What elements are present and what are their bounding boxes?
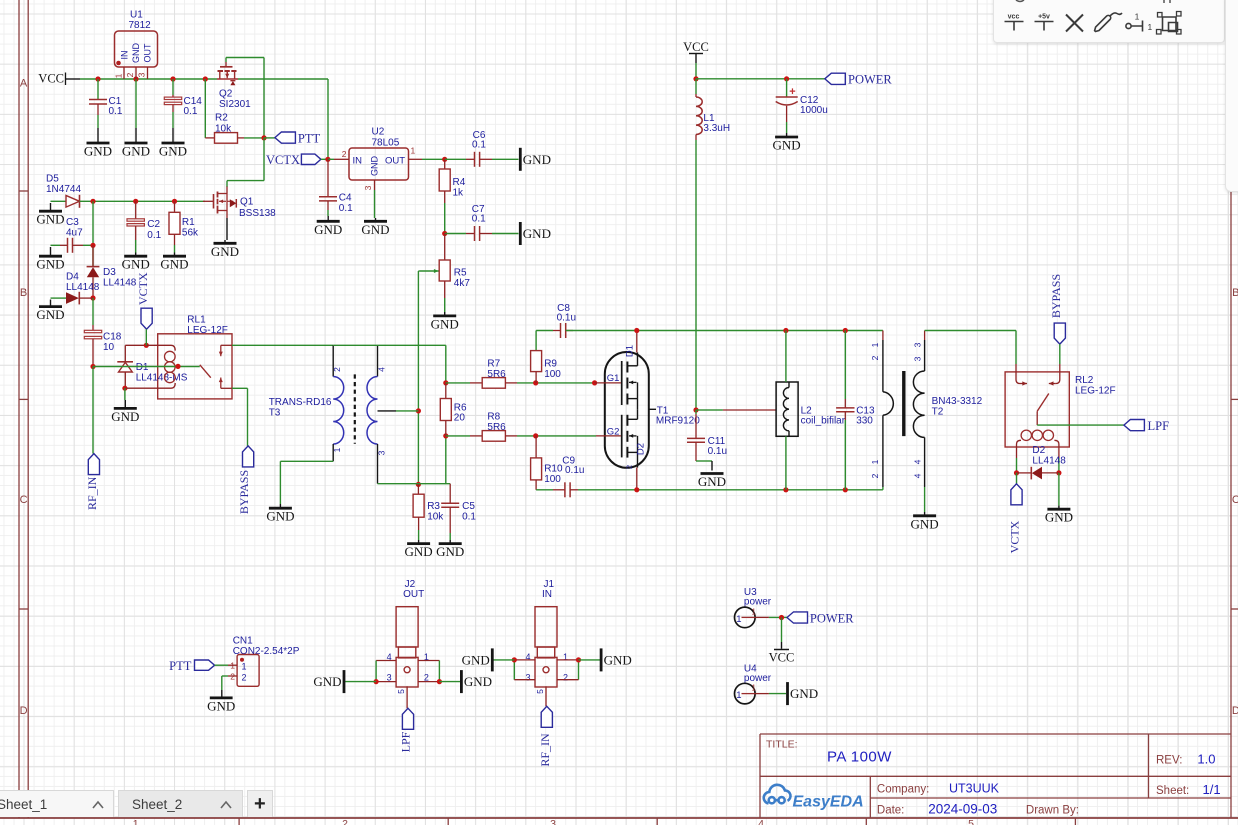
svg-text:VCTX: VCTX	[1008, 520, 1022, 553]
ground under T2 pin4	[924, 512, 926, 516]
svg-text:1N4744: 1N4744	[46, 184, 81, 195]
dual mosfet T1 MRF9120	[637, 452, 639, 467]
junction	[133, 76, 138, 81]
ground left of D4	[50, 300, 52, 307]
svg-text:T3: T3	[269, 408, 281, 419]
capacitor C7	[445, 233, 466, 235]
capacitor C7	[492, 233, 519, 235]
junction	[592, 380, 597, 385]
diode D2 LL4148	[1030, 467, 1032, 480]
capacitor C11	[696, 409, 712, 411]
PTT flag shape	[195, 660, 215, 670]
CN1 pin2 to ground	[221, 690, 223, 698]
capacitor C6	[479, 152, 481, 167]
ground under D2	[1058, 473, 1060, 506]
svg-text:C: C	[20, 494, 28, 506]
capacitor C2	[135, 240, 137, 253]
transistor Q1 BSS138	[218, 210, 228, 212]
wire VCC rail	[80, 78, 217, 80]
wire U1 pin2 to ground	[135, 79, 137, 128]
svg-text:2: 2	[870, 473, 880, 478]
net port VCC (U3)	[781, 618, 783, 643]
T2 right winding	[913, 371, 924, 437]
ground left of C3	[39, 255, 62, 258]
RL2 coil pins down	[1016, 458, 1018, 473]
resistor R9 100	[535, 372, 537, 383]
svg-text:R2: R2	[215, 113, 228, 124]
capacitor C9	[569, 482, 571, 497]
title block	[870, 797, 1231, 799]
svg-text:LL4148-MS: LL4148-MS	[136, 373, 188, 384]
svg-text:1/1: 1/1	[1203, 782, 1221, 797]
ground left of D5	[80, 200, 94, 202]
svg-text:OUT: OUT	[403, 589, 424, 600]
resistor R8 5R6	[470, 435, 482, 437]
ground under D1	[114, 407, 137, 410]
connector J1 IN	[557, 679, 579, 681]
net port VCC (U3)	[774, 649, 789, 651]
transistor Q2 SI2301	[219, 71, 221, 79]
J1 pin5 to RF_IN flag	[541, 706, 552, 727]
vertical bias wire x=93	[92, 201, 94, 266]
svg-text:3: 3	[387, 672, 392, 682]
wire PTT node down to Q1 drain	[263, 138, 265, 181]
svg-text:C5: C5	[462, 501, 475, 512]
svg-text:VCTX: VCTX	[136, 272, 150, 305]
T3 secondary top rail	[445, 345, 447, 383]
relay RL1 LEG-12F	[158, 334, 232, 399]
ground left of D4	[78, 292, 80, 305]
svg-text:GND: GND	[211, 244, 239, 259]
ground left of C3	[72, 238, 74, 253]
svg-text:GND: GND	[36, 257, 64, 272]
svg-text:5: 5	[535, 689, 545, 694]
transistor Q1 BSS138	[218, 193, 228, 195]
transistor Q2 SI2301	[230, 80, 235, 82]
J1 pin5 to RF_IN flag	[545, 686, 547, 706]
svg-text:Q2: Q2	[219, 89, 233, 100]
wire U2 out node	[422, 158, 445, 160]
svg-text:C18: C18	[103, 332, 122, 343]
wire down to RF_IN	[92, 367, 94, 454]
capacitor C8	[535, 331, 537, 351]
connector J2 OUT	[376, 660, 396, 662]
title block	[760, 733, 1231, 735]
capacitor C1	[89, 99, 107, 101]
port flag POWER (top)	[825, 73, 846, 84]
connector J2 OUT	[438, 661, 440, 682]
inductor L2 coil_bifilar	[776, 382, 798, 436]
svg-text:1: 1	[114, 73, 124, 78]
capacitor C13 330	[836, 411, 854, 413]
ground under C5	[449, 540, 451, 544]
capacitor C8	[565, 323, 567, 338]
junction	[442, 157, 447, 162]
BYPASS flag over RL2	[1049, 381, 1054, 385]
capacitor C18	[92, 325, 94, 330]
ground under U1 pin2	[125, 142, 148, 145]
ground under Q1	[224, 240, 226, 243]
svg-text:GND: GND	[1045, 510, 1073, 525]
resistor R2 10k	[238, 137, 245, 139]
transistor Q2 SI2301	[225, 62, 227, 67]
svg-text:D2: D2	[1032, 445, 1045, 456]
junction	[634, 328, 639, 333]
capacitor C14	[172, 79, 174, 95]
svg-text:1: 1	[1135, 12, 1140, 22]
svg-text:4: 4	[758, 818, 764, 825]
svg-text:0.1: 0.1	[472, 214, 486, 225]
connector J1 IN	[514, 679, 535, 681]
ground under C11	[701, 472, 724, 475]
junction	[693, 76, 698, 81]
BYPASS flag over RL2	[1059, 364, 1061, 372]
wire T2 pin3 to RL2	[925, 330, 1016, 332]
ground left of C3	[50, 247, 52, 256]
svg-text:GND: GND	[159, 144, 187, 159]
resistor R8 5R6	[505, 435, 517, 437]
inductor L1 3.3uH	[695, 135, 697, 141]
junction	[90, 295, 95, 300]
svg-text:1k: 1k	[453, 188, 465, 199]
EasyEDA logo	[764, 785, 791, 804]
inductor L1 3.3uH	[696, 97, 702, 135]
ground under R3	[418, 540, 420, 544]
grounds beside J2	[439, 681, 460, 683]
resistor R7 5R6	[505, 382, 517, 384]
svg-text:RL1: RL1	[187, 315, 206, 326]
capacitor C18	[92, 339, 94, 367]
junction	[437, 679, 442, 684]
svg-text:+: +	[789, 86, 795, 98]
T1 source pin to rail	[636, 468, 638, 490]
svg-text:1: 1	[242, 661, 247, 671]
junction	[374, 679, 379, 684]
connector J2 OUT	[404, 667, 410, 673]
ground left of D5	[66, 196, 80, 208]
resistor R1 56k	[169, 212, 180, 234]
capacitor C14	[164, 102, 181, 104]
RL2 coil loops	[1054, 440, 1059, 447]
resistor R8 5R6	[517, 435, 596, 437]
junction	[170, 76, 175, 81]
ground under C4	[317, 220, 340, 223]
svg-text:GND: GND	[122, 144, 150, 159]
T1 gate pins	[595, 382, 621, 384]
svg-text:GND: GND	[698, 474, 726, 489]
dual mosfet T1 MRF9120	[629, 381, 633, 385]
ground under R5	[444, 312, 446, 316]
trimmer R5 4k7	[420, 270, 439, 272]
svg-text:GND: GND	[431, 316, 459, 331]
dual mosfet T1 MRF9120	[626, 415, 628, 426]
ground left of D4	[66, 292, 79, 304]
junction	[90, 199, 95, 204]
grounds beside J2	[460, 670, 463, 693]
toolbar icon pin-1	[1126, 23, 1131, 28]
svg-text:4k7: 4k7	[454, 278, 471, 289]
T3 bottom rail	[378, 483, 451, 485]
power symbol U4	[755, 693, 769, 695]
port flag POWER (U3)	[787, 612, 808, 623]
T2 left winding single bump	[883, 392, 893, 416]
svg-text:10: 10	[103, 342, 115, 353]
power symbol U4	[769, 693, 786, 695]
grounds beside J1	[493, 659, 514, 661]
ground under C12	[786, 133, 788, 137]
svg-text:power: power	[744, 597, 772, 608]
dual mosfet T1 MRF9120	[621, 415, 623, 458]
svg-text:BYPASS: BYPASS	[237, 470, 251, 514]
capacitor C13 330	[844, 331, 846, 400]
capacitor C5	[449, 533, 451, 540]
svg-text:4: 4	[913, 473, 923, 478]
ground under D2	[1047, 508, 1070, 511]
svg-text:D1: D1	[136, 362, 149, 373]
capacitor C2	[127, 224, 144, 226]
svg-text:R8: R8	[487, 412, 500, 423]
svg-text:GND: GND	[36, 212, 64, 227]
T2 core bar	[902, 371, 905, 436]
svg-text:GND: GND	[313, 674, 341, 689]
svg-text:D5: D5	[46, 174, 59, 185]
sheet tab Sheet_1	[0, 790, 114, 818]
svg-text:D: D	[1232, 705, 1238, 717]
PTT flag shape	[215, 664, 228, 666]
ground T3 pin1	[279, 504, 281, 508]
net label VCC (left)	[65, 73, 67, 86]
svg-text:GND: GND	[604, 652, 632, 667]
RL1 coil top lead	[146, 345, 175, 350]
ground left of D4	[79, 297, 93, 299]
toolbar icon group/netclass	[1163, 17, 1177, 31]
ground under R5	[433, 314, 456, 317]
svg-text:GND: GND	[266, 509, 294, 524]
svg-text:1.0: 1.0	[1197, 752, 1215, 767]
svg-text:PTT: PTT	[169, 659, 192, 673]
svg-text:2024-09-03: 2024-09-03	[928, 802, 997, 817]
relay RL2 LEG-12F	[1020, 383, 1027, 385]
BYPASS flag over RL2	[1056, 372, 1060, 384]
resistor R3 10k	[417, 484, 419, 494]
title block	[760, 775, 1231, 777]
transistor Q2 SI2301	[226, 57, 264, 59]
capacitor C8	[560, 323, 562, 338]
svg-text:3: 3	[137, 72, 147, 77]
resistor R10 100	[531, 458, 542, 480]
power symbol U4	[742, 693, 756, 695]
right edge floating panel	[1225, 0, 1238, 192]
svg-text:1: 1	[736, 614, 741, 625]
T3 core dashes	[354, 374, 356, 443]
ground under U2 pin3	[364, 220, 387, 223]
svg-text:4: 4	[913, 459, 923, 464]
svg-text:GND: GND	[314, 222, 342, 237]
svg-text:GND: GND	[361, 222, 389, 237]
connector J1 IN	[543, 667, 549, 673]
ground under D2	[1058, 506, 1060, 510]
svg-text:1: 1	[411, 146, 416, 156]
junction	[90, 243, 95, 248]
svg-text:3.3uH: 3.3uH	[703, 123, 730, 134]
wire R5 wiper down to T3 tap	[417, 271, 419, 484]
junction	[779, 615, 784, 620]
wire PTT node down to Q1 drain	[226, 181, 228, 187]
dual mosfet T1 MRF9120	[626, 378, 628, 389]
diode D3 LL4148	[92, 245, 94, 266]
wire L1 node to L2	[723, 409, 776, 411]
inductor L2 coil_bifilar	[788, 431, 790, 437]
capacitor C11	[687, 441, 705, 443]
svg-text:0.1: 0.1	[472, 140, 486, 151]
connector CN1 CON2-2.54*2P	[228, 664, 237, 666]
resistor R1 56k	[174, 234, 176, 245]
port flag VCTX (to U2)	[321, 158, 328, 160]
source bottom rail	[578, 489, 883, 491]
BYPASS flag over RL2	[1049, 383, 1056, 385]
connector J1 IN	[513, 660, 515, 680]
transistor Q2 SI2301	[226, 71, 228, 76]
ground left of D5	[50, 203, 52, 211]
connector J2 OUT	[396, 607, 418, 647]
ground under C14	[172, 128, 174, 143]
svg-text:RL2: RL2	[1075, 375, 1094, 386]
junction	[90, 364, 95, 369]
port flag PTT	[264, 137, 275, 139]
resistor R6 20	[445, 383, 447, 399]
svg-text:3: 3	[550, 818, 556, 825]
svg-text:C: C	[1232, 494, 1238, 506]
svg-text:1: 1	[1148, 22, 1153, 32]
svg-text:VCTX: VCTX	[266, 153, 300, 167]
capacitor C11	[695, 410, 697, 414]
svg-text:TITLE:: TITLE:	[766, 739, 798, 751]
capacitor C12 1000u	[786, 122, 788, 133]
ground left of D5	[51, 200, 67, 202]
T3 right winding	[377, 444, 379, 484]
ground left of C3	[83, 244, 93, 246]
transistor Q1 BSS138	[230, 199, 237, 207]
dual mosfet T1 MRF9120	[627, 418, 637, 420]
T2 right winding	[924, 331, 926, 341]
svg-text:BYPASS: BYPASS	[1049, 274, 1063, 318]
wire VCC rail	[238, 78, 328, 80]
CN1 pin2 to ground	[221, 676, 223, 690]
resistor R10 100	[535, 480, 537, 490]
relay common wire	[93, 366, 200, 368]
transistor Q1 BSS138	[217, 206, 219, 214]
svg-text:TRANS-RD16: TRANS-RD16	[269, 397, 332, 408]
wire L1 node to L2	[712, 409, 723, 411]
svg-text:0.1u: 0.1u	[708, 446, 727, 457]
svg-text:0.1u: 0.1u	[557, 313, 576, 324]
junction	[843, 328, 848, 333]
capacitor C1	[97, 104, 99, 115]
svg-text:Sheet:: Sheet:	[1156, 785, 1189, 797]
svg-text:1: 1	[133, 818, 139, 825]
junction	[634, 487, 639, 492]
connector J2 OUT	[418, 681, 439, 683]
svg-text:3: 3	[913, 356, 923, 361]
junction	[576, 657, 581, 662]
svg-text:C3: C3	[66, 217, 79, 228]
regulator U2 78L05	[328, 158, 334, 160]
connector J1 IN	[578, 660, 580, 680]
svg-text:GND: GND	[773, 138, 801, 153]
transformer T3 TRANS-RD16	[279, 461, 281, 504]
trimmer R5 4k7	[444, 298, 446, 312]
svg-text:power: power	[744, 673, 772, 684]
transistor Q2 SI2301	[263, 58, 265, 138]
ground left of D5	[39, 210, 62, 213]
trimmer R5 4k7	[444, 281, 446, 298]
T3 secondary top rail	[333, 344, 446, 346]
svg-text:GND: GND	[370, 156, 380, 177]
svg-text:D2: D2	[636, 443, 647, 455]
grounds beside J1	[600, 648, 603, 671]
svg-text:20: 20	[454, 413, 466, 424]
svg-text:100: 100	[544, 369, 561, 380]
svg-text:GND: GND	[405, 544, 433, 559]
svg-text:POWER: POWER	[810, 611, 854, 625]
RL1 coil loops	[165, 351, 176, 362]
trimmer R5 4k7	[444, 234, 446, 261]
capacitor C5	[449, 484, 451, 504]
connector J2 OUT	[398, 647, 415, 658]
wire relay NO to BYPASS	[247, 388, 249, 446]
svg-text:2: 2	[625, 465, 634, 469]
capacitor C8	[536, 330, 553, 332]
transistor Q2 SI2301	[225, 74, 229, 78]
port flag BYPASS (left)	[243, 446, 254, 467]
resistor R4 1k	[444, 203, 446, 234]
toolbar icon probe pen	[1095, 13, 1122, 32]
svg-text:GND: GND	[36, 307, 64, 322]
ground under C12	[775, 136, 798, 139]
wire relay NO to BYPASS	[232, 387, 248, 389]
T1 drain pin to rail	[636, 331, 638, 353]
junction	[443, 380, 448, 385]
ground under D1	[124, 400, 126, 408]
connector CN1 CON2-2.54*2P	[228, 675, 237, 677]
svg-text:D3: D3	[103, 267, 116, 278]
svg-text:1: 1	[870, 459, 880, 464]
resistor R8 5R6	[446, 435, 470, 437]
capacitor C5	[441, 506, 459, 508]
T2 pin1 lead	[882, 340, 884, 392]
sheet tab Sheet_2	[118, 790, 243, 818]
transistor Q1 BSS138	[235, 199, 237, 208]
svg-text:+5v: +5v	[1038, 14, 1050, 21]
diode D1 LL4148-MS	[124, 345, 126, 362]
inductor L2 coil_bifilar	[783, 388, 789, 431]
junction	[1056, 470, 1061, 475]
transistor Q1 BSS138	[226, 194, 228, 211]
capacitor C7	[466, 233, 475, 235]
capacitor C7	[479, 226, 481, 241]
transistor Q2 SI2301	[217, 78, 238, 80]
transistor Q2 SI2301	[230, 81, 235, 85]
dual mosfet T1 MRF9120	[621, 361, 623, 405]
ground under Q1	[214, 242, 237, 245]
resistor R4 1k	[444, 191, 446, 203]
transistor Q2 SI2301	[220, 66, 233, 68]
resistor R6 20	[440, 399, 451, 421]
svg-text:LPF: LPF	[399, 731, 413, 752]
transistor Q1 BSS138	[227, 200, 233, 202]
inductor L1 3.3uH	[695, 94, 697, 97]
diode D1 LL4148-MS	[119, 362, 133, 372]
